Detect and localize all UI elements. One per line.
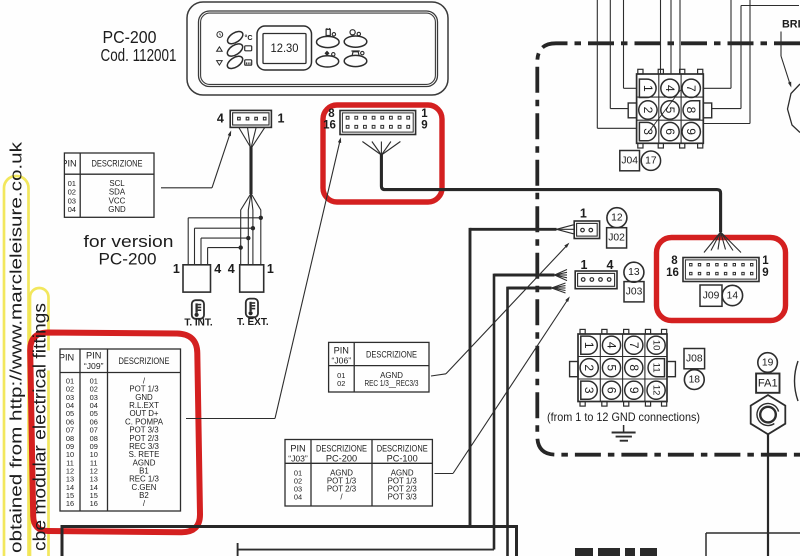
J08 pin 4 [602,336,620,354]
svg-text:04: 04 [294,493,302,502]
svg-text:2: 2 [582,364,596,371]
svg-text:16: 16 [323,120,336,132]
svg-text:16: 16 [666,267,679,279]
svg-text:PC-200: PC-200 [103,27,157,47]
J08 pin 10 [647,336,665,354]
svg-text:DESCRIZIONE: DESCRIZIONE [316,444,367,454]
table J09 pins [47,349,181,511]
wire fan at J03 top [555,270,568,281]
svg-text:9: 9 [421,120,427,132]
title block frame right [706,533,800,556]
svg-text:8: 8 [671,255,678,267]
svg-text:4: 4 [663,85,677,92]
J08 pin 11 [648,359,664,377]
wire fan at J03 bottom [552,283,566,293]
svg-text:2: 2 [641,107,655,114]
svg-text:DESCRIZIONE: DESCRIZIONE [377,444,428,454]
label 1 [421,108,428,120]
J08 pin 2 [580,359,598,377]
svg-text:4: 4 [214,262,221,276]
svg-text:02: 02 [337,379,345,388]
svg-text:PIN: PIN [290,444,305,454]
svg-text:5: 5 [663,107,677,114]
svg-text:4: 4 [228,262,235,276]
svg-text:04: 04 [68,205,76,214]
svg-text:“J09”: “J09” [84,361,104,371]
label 4 (pin4) [217,112,224,126]
svg-text:PC-200: PC-200 [99,249,157,268]
wires to T.INT connector [188,218,261,265]
svg-text:DESCRIZIONE: DESCRIZIONE [366,350,417,360]
J08 pin 12 [647,381,665,399]
svg-text:10: 10 [651,340,662,351]
svg-text:DESCRIZIONE: DESCRIZIONE [92,159,143,169]
panel right button BR with pot icon [344,51,367,67]
svg-text:1: 1 [278,112,285,126]
junction dots on sensor wires [239,216,263,250]
control panel PC-200 outline [187,2,448,95]
svg-text:PC-100: PC-100 [387,454,418,464]
svg-text:3: 3 [641,128,655,135]
label 4 T.EXT [228,262,235,276]
label circle 18 [684,370,704,390]
partial shape right edge [795,361,799,401]
label 1 J02 [580,206,587,220]
label J04 [620,151,640,171]
dash-dot bus line [537,43,800,454]
svg-text:POT 3/3: POT 3/3 [388,493,418,502]
svg-text:1: 1 [581,258,588,272]
connector J02 2-pin [574,221,599,239]
wire top 5 [670,0,672,74]
panel left icon: triangle up [217,47,223,52]
label 1 J09 [762,255,769,267]
wire fan below 16-pin connector [362,142,400,156]
label 4 T.INT [214,262,221,276]
panel right button BL with diamond icon [316,51,339,67]
table J06 [329,342,429,392]
label 1 T.INT [173,262,180,276]
highlight capsule (yellow) around cbe modular text [30,288,49,556]
label 8 J09 [671,255,678,267]
panel icon: tray [245,46,252,51]
svg-text:obtained from http://www.marcl: obtained from http://www.marcleleisure.c… [7,141,26,553]
leader from J03 table to J03 connector [435,296,570,473]
connector J09 16-pin [683,258,759,282]
label BRIDGE [782,19,800,31]
J08 pin 1 [581,336,598,354]
table J03 [285,440,432,507]
label circle 12 [607,208,627,228]
panel icon: bucket [245,60,252,65]
J04 pin 8 [683,101,700,119]
svg-text:(from 1 to 12 GND connections): (from 1 to 12 GND connections) [547,411,700,424]
wire bottom bus (thick) [62,527,517,556]
caption for version PC-200 [84,232,174,268]
svg-text:J09: J09 [703,290,720,301]
svg-text:1: 1 [173,262,180,276]
svg-text:7: 7 [627,342,641,349]
svg-text:“J06”: “J06” [332,356,352,366]
J08 pin 6 [602,381,620,399]
svg-text:1: 1 [580,206,587,220]
connector J04 3x3 [628,69,712,148]
wire lower return [238,543,494,556]
red highlight box around J09 16-pin connector [657,238,786,321]
wire bundle (thick) [249,147,252,195]
caption from 1 to 12 GND connections [547,411,700,424]
svg-text:1: 1 [267,262,274,276]
wire to J03 pin row (thick) [494,274,555,550]
connector T.INT [183,265,211,292]
svg-text:18: 18 [689,375,701,386]
label T. EXT. [237,317,269,328]
svg-text:4: 4 [607,258,614,272]
label box J03 [624,282,644,302]
svg-text:9: 9 [762,267,768,279]
svg-text:°C: °C [244,33,252,42]
svg-text:BRIDGE: BRIDGE [782,19,800,31]
panel button oval 2 [225,41,245,58]
panel button oval 1 [225,29,245,46]
svg-text:DESCRIZIONE: DESCRIZIONE [119,356,170,366]
label box J09 [700,285,722,306]
J08 pin 7 [625,336,643,354]
ground symbol [612,425,636,441]
watermark text: obtained from url [7,141,26,553]
red highlight box around 16-pin connector top [323,105,442,202]
J04 pin 5 [661,101,679,119]
label box J08 [684,349,705,369]
wire fan at J02 [557,225,574,234]
wire top 6 [679,0,681,74]
wire diagonal inside J04 connector [649,90,681,132]
svg-text:J04: J04 [621,156,638,167]
J04 pin 7 [682,79,700,97]
wire fuse to bottom [767,434,769,556]
connector J08 12-pin grid [570,329,676,406]
svg-text:cbe modular electrical fitting: cbe modular electrical fittings [30,303,50,551]
svg-text:11: 11 [651,363,662,373]
wire to J02 (thick) [470,228,557,526]
label box J02 [607,228,627,248]
panel caption PC-200 Cod. 112001 [101,27,177,65]
label 9 J09 [762,267,768,279]
svg-text:1: 1 [641,85,655,92]
svg-text:T. EXT.: T. EXT. [237,317,269,328]
J08 pin 3 [581,381,597,399]
label 16 J09 [666,267,679,279]
panel icon: degC [244,33,252,42]
title text (cut off) [575,548,657,556]
highlight capsule (yellow) around obtained-from url text [4,176,29,556]
connector J03 4-pin [575,271,617,289]
fuse holder hexagon [751,395,786,434]
bridge octagon (partial) [788,84,800,133]
label 1 (pin1) [278,112,285,126]
thermometer icon T.EXT [246,299,258,318]
svg-text:PIN: PIN [86,351,101,361]
connector 4-pin display header [230,110,271,127]
connector 16-pin (to J09 cable) [340,111,416,135]
wire fan into J09 connector [704,232,741,253]
watermark text: cbe modular electrical fittings [30,303,50,551]
J04 pin 4 [661,79,679,97]
svg-text:19: 19 [762,357,774,368]
svg-text:4: 4 [217,112,224,126]
label 16 [323,120,336,132]
svg-text:“J03”: “J03” [288,454,308,464]
wire top 3 [624,0,637,88]
wire 16-pin to J09 (thick) [381,154,720,232]
wire to J03 lower (thick) [508,287,552,556]
red highlight box around J09 pin table [30,333,200,533]
svg-text:T. INT.: T. INT. [184,317,213,328]
svg-text:FA1: FA1 [758,378,778,390]
wire top 1 [597,0,636,128]
svg-text:PIN: PIN [59,353,74,363]
J08 pin 5 [602,359,620,377]
leader from I2C table to connector [161,130,231,187]
J04 pin 6 [661,122,679,140]
wire right 1 [703,0,731,88]
label circle 19 [758,353,778,373]
wire fan from 4-pin connector [239,128,265,148]
leader from J06 table to J02 [431,243,569,376]
svg-text:14: 14 [727,290,739,301]
label 1 J03 [581,258,588,272]
label circle 13 [624,262,644,282]
label 8 [328,108,335,120]
svg-text:16: 16 [90,499,98,508]
leader arrow to bridge [781,32,791,88]
label 9 [421,120,427,132]
svg-text:PIN: PIN [334,346,349,356]
wire top 4 [660,0,662,74]
wire top 2 [610,0,628,109]
svg-text:for version: for version [84,232,174,251]
J08 pin 8 [625,359,643,377]
wire right 3 [703,0,750,124]
panel left icon: clock [217,32,223,38]
J04 pin 2 [639,101,657,119]
panel left icon: triangle down [217,61,223,66]
svg-text:J08: J08 [686,354,703,365]
panel right button TR with light icon [344,30,367,48]
label circle 17 [641,151,660,170]
svg-text:8: 8 [627,364,641,371]
svg-text:/: / [340,493,343,502]
svg-text:8: 8 [684,107,698,114]
svg-text:GND: GND [108,205,126,214]
J04 pin 3 [639,122,656,140]
svg-text:9: 9 [684,128,698,135]
svg-text:6: 6 [663,128,677,135]
svg-text:/: / [143,499,146,508]
svg-text:16: 16 [66,499,74,508]
label T. INT. [184,317,213,328]
leader from J09 table to 16-pin connector [186,137,341,418]
label circle 14 [722,285,742,305]
svg-text:REC 1/3__REC3/3: REC 1/3__REC3/3 [365,379,419,388]
J08 pin 9 [625,381,643,399]
wire right 2 [712,6,799,109]
svg-text:9: 9 [627,387,641,394]
svg-text:8: 8 [328,108,335,120]
label 1 T.EXT [267,262,274,276]
label 4 J03 [607,258,614,272]
svg-text:J02: J02 [608,233,625,244]
svg-text:17: 17 [645,156,657,167]
svg-text:1: 1 [421,108,428,120]
wire fan to T sensors [241,193,261,264]
panel button oval 3 [225,54,245,71]
svg-text:6: 6 [605,387,619,394]
label box FA1 [756,374,779,393]
table I2C pins [52,153,154,217]
svg-text:13: 13 [628,267,640,278]
svg-text:Cod. 112001: Cod. 112001 [101,45,177,65]
svg-text:J03: J03 [626,287,643,298]
connector T.EXT [240,265,264,292]
svg-text:12.30: 12.30 [271,42,299,55]
svg-text:1: 1 [582,342,596,349]
J04 pin 1 [639,79,656,97]
svg-text:5: 5 [605,364,619,371]
svg-text:7: 7 [684,85,698,92]
J04 pin 9 [682,122,700,140]
svg-text:4: 4 [605,342,619,349]
panel display [257,26,312,70]
panel right button TL with lamp icon [317,28,340,48]
thermometer icon T.INT [192,300,204,319]
svg-text:12: 12 [611,213,623,224]
svg-text:PC-200: PC-200 [326,454,357,464]
svg-text:1: 1 [762,255,769,267]
svg-text:12: 12 [651,385,662,396]
svg-text:3: 3 [582,387,596,394]
